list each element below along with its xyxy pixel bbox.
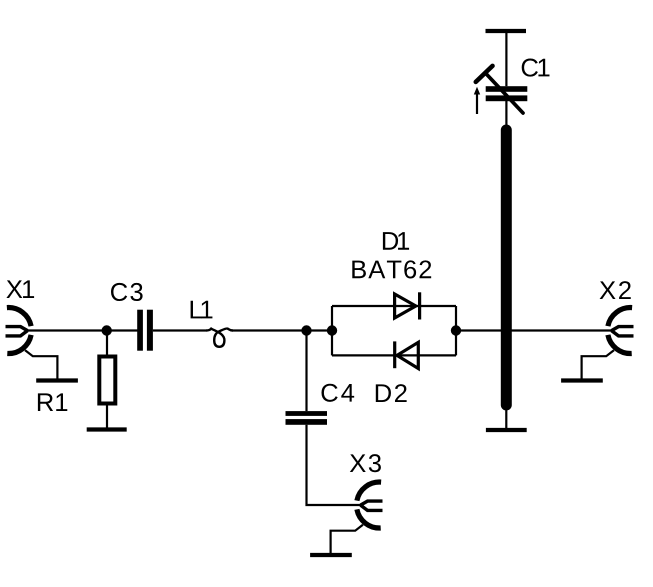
- wire C4 to X3: [307, 425, 361, 505]
- node junction left (R1 tap): [102, 325, 112, 335]
- label C1: [522, 59, 550, 77]
- wire diode box to X2: [456, 329, 612, 331]
- capacitor C3: [137, 310, 153, 351]
- connector X2: [561, 308, 633, 381]
- wire diode box top: [332, 305, 456, 307]
- label BAT62: [352, 260, 431, 278]
- wire diode box bottom: [332, 354, 456, 356]
- label C3: [111, 283, 143, 301]
- trimmer C1 adjustment diagonal: [487, 74, 523, 113]
- label D1: [383, 232, 409, 250]
- connector X1 center pin fork: [6, 327, 28, 336]
- trimmer capacitor C1 plates: [486, 86, 528, 101]
- node A (C4 tap): [301, 325, 311, 335]
- transmission line stub (thick bar): [501, 130, 512, 405]
- ground R1: [87, 427, 127, 431]
- wire C1 to stub: [505, 101, 507, 127]
- label X1: [6, 280, 34, 298]
- connector X1 shell arc: [7, 308, 31, 354]
- node C (diode box right): [451, 325, 461, 335]
- wire L1 to diode box: [232, 329, 332, 331]
- label X2: [600, 281, 631, 299]
- wire R1 to ground: [106, 406, 108, 430]
- resistor R1: [99, 357, 115, 404]
- label D2: [376, 384, 407, 402]
- wire top ground to C1: [505, 31, 507, 86]
- label L1: [191, 301, 213, 319]
- wire diode box right vertical: [455, 306, 457, 355]
- wire C3 to L1: [153, 329, 206, 331]
- trimmer C1 slot bar: [476, 66, 493, 82]
- trimmer C1 variation arrow: [476, 92, 478, 114]
- label R1: [38, 393, 67, 411]
- wire X1 shield tap: [25, 350, 57, 380]
- wire stub to ground: [505, 405, 507, 430]
- diode D1: [395, 292, 420, 319]
- diode D2: [395, 341, 419, 368]
- ground top (above C1): [486, 29, 527, 33]
- wire X1 to C3: [28, 329, 138, 331]
- label X3: [350, 454, 381, 472]
- ground X1: [36, 378, 78, 382]
- label C4: [322, 384, 355, 402]
- wire diode box left vertical: [331, 306, 333, 355]
- connector X3: [310, 482, 382, 555]
- wire node A to C4: [305, 331, 307, 412]
- ground bottom (stub): [486, 428, 527, 432]
- inductor L1: [206, 328, 233, 346]
- capacitor C4: [286, 411, 328, 425]
- wire junction to R1: [106, 331, 108, 356]
- node B (diode box left): [327, 325, 337, 335]
